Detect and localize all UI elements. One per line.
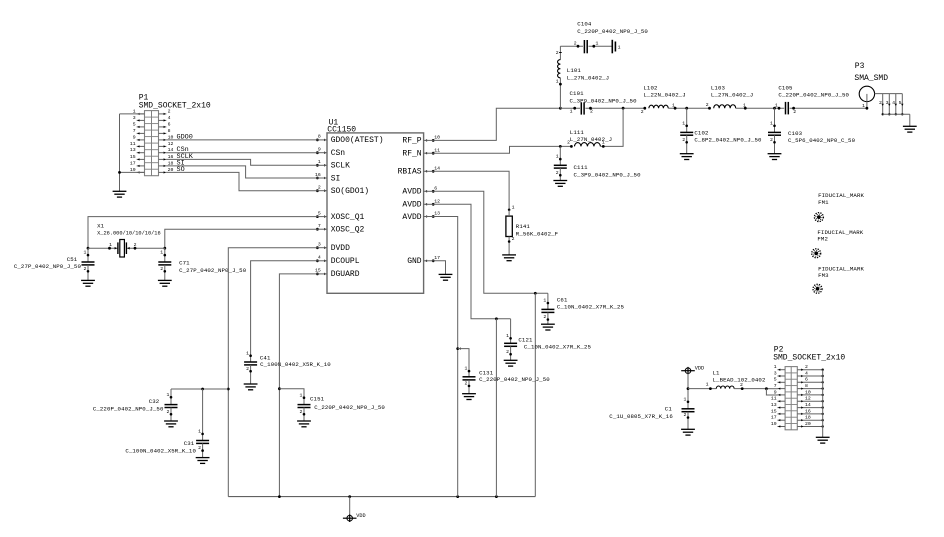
capacitor C102 label xyxy=(694,129,762,143)
fiducial FM1 xyxy=(814,213,823,222)
svg-text:SO: SO xyxy=(177,166,185,174)
wire L111 out xyxy=(600,108,623,148)
svg-text:SI: SI xyxy=(331,174,341,183)
wire AVDD12 drop xyxy=(495,319,497,497)
svg-text:6: 6 xyxy=(805,377,808,383)
capacitor C131 xyxy=(462,362,476,400)
node AVDD12 bus xyxy=(495,317,498,320)
svg-text:SO(GDO1): SO(GDO1) xyxy=(331,187,369,196)
svg-text:3: 3 xyxy=(133,115,136,121)
connector P1 label xyxy=(139,94,211,111)
svg-text:L_22N_0402_J: L_22N_0402_J xyxy=(643,92,685,99)
svg-text:R141: R141 xyxy=(516,223,531,230)
svg-text:C_27P_0402_NP0_J_50: C_27P_0402_NP0_J_50 xyxy=(179,267,247,274)
wire CSn xyxy=(166,146,317,154)
wire SI xyxy=(166,159,317,178)
svg-text:2: 2 xyxy=(246,366,249,372)
svg-text:4: 4 xyxy=(318,255,321,261)
wire XOSC_Q2 xyxy=(165,229,318,248)
antenna stub plates xyxy=(612,40,620,54)
svg-text:5: 5 xyxy=(774,377,777,383)
svg-text:2: 2 xyxy=(167,409,170,415)
svg-text:SCLK: SCLK xyxy=(331,162,350,171)
P1 pin numbers xyxy=(130,108,174,173)
ground below R141 xyxy=(502,255,516,261)
svg-text:L_27N_0402_J: L_27N_0402_J xyxy=(570,136,612,143)
wire crystal right xyxy=(126,242,164,249)
svg-text:9: 9 xyxy=(318,147,321,153)
svg-text:C_3P9_0402_NP0_J_50: C_3P9_0402_NP0_J_50 xyxy=(570,97,638,104)
svg-text:7: 7 xyxy=(133,128,136,134)
node XTAL right xyxy=(163,247,166,250)
svg-text:FM3: FM3 xyxy=(818,272,829,279)
capacitor C103 xyxy=(768,108,782,159)
wire L101 bottom xyxy=(556,78,562,108)
svg-text:16: 16 xyxy=(315,172,321,178)
svg-text:2: 2 xyxy=(543,314,546,320)
svg-text:L103: L103 xyxy=(711,84,726,91)
svg-text:2: 2 xyxy=(641,109,644,115)
wire RF_N xyxy=(433,146,571,153)
svg-text:SMD_SOCKET_2x10: SMD_SOCKET_2x10 xyxy=(773,353,845,362)
svg-text:18: 18 xyxy=(805,415,811,421)
svg-text:2: 2 xyxy=(506,349,509,355)
svg-text:2: 2 xyxy=(770,137,773,143)
svg-text:1: 1 xyxy=(84,250,87,256)
svg-text:1: 1 xyxy=(318,159,321,165)
svg-text:14: 14 xyxy=(805,402,811,408)
svg-text:C102: C102 xyxy=(694,129,709,136)
capacitor C71 label xyxy=(179,260,247,274)
wire GDO0 xyxy=(166,133,317,141)
svg-text:C_8P2_0402_NP0_J_50: C_8P2_0402_NP0_J_50 xyxy=(694,137,762,144)
capacitor C41 xyxy=(244,350,258,390)
svg-text:P3: P3 xyxy=(855,62,865,71)
svg-text:5: 5 xyxy=(318,210,321,216)
svg-text:SMA_SMD: SMA_SMD xyxy=(854,74,888,83)
wire to P3 xyxy=(790,107,867,115)
wire L1 in xyxy=(688,382,716,390)
inductor L1 label xyxy=(713,369,766,383)
wire C151 branch xyxy=(279,389,304,398)
inductor L102 xyxy=(649,105,668,108)
power VDD bottom xyxy=(343,514,357,522)
P3 ground pins xyxy=(879,94,903,116)
wire VDD stub xyxy=(349,497,351,516)
connector P1 xyxy=(137,111,167,176)
svg-text:13: 13 xyxy=(130,147,136,153)
svg-text:C_10N_0402_X7R_K_25: C_10N_0402_X7R_K_25 xyxy=(524,343,592,350)
svg-text:9: 9 xyxy=(133,134,136,140)
wire L103 out xyxy=(736,102,785,109)
svg-text:7: 7 xyxy=(318,223,321,229)
svg-text:2: 2 xyxy=(134,242,137,248)
svg-text:3: 3 xyxy=(318,242,321,248)
svg-text:L101: L101 xyxy=(567,67,582,74)
capacitor C41 label xyxy=(260,354,331,368)
fiducial FM2 label xyxy=(817,229,863,243)
svg-text:2: 2 xyxy=(84,266,87,272)
svg-text:2: 2 xyxy=(879,100,882,106)
inductor L103 label xyxy=(711,84,753,98)
capacitor C31 label xyxy=(125,440,196,454)
svg-text:VDD: VDD xyxy=(695,366,704,372)
svg-text:XOSC_Q2: XOSC_Q2 xyxy=(331,226,365,235)
svg-text:1: 1 xyxy=(300,392,303,398)
svg-text:2: 2 xyxy=(512,236,515,242)
svg-text:C_100N_0402_X5R_K_10: C_100N_0402_X5R_K_10 xyxy=(125,447,196,454)
wire C104 in xyxy=(560,40,583,47)
svg-text:2: 2 xyxy=(740,382,743,388)
U1 right pins xyxy=(398,135,441,267)
svg-text:C_220P_0402_NP0_J_50: C_220P_0402_NP0_J_50 xyxy=(93,406,164,413)
fiducial FM1 label xyxy=(818,192,864,206)
svg-text:C71: C71 xyxy=(179,260,190,267)
capacitor C51 label xyxy=(14,256,82,270)
svg-text:17: 17 xyxy=(771,415,777,421)
capacitor C103 label xyxy=(788,130,856,144)
svg-text:GDO0: GDO0 xyxy=(177,133,193,141)
wire AVDD12 xyxy=(433,204,510,318)
svg-text:VDD: VDD xyxy=(356,513,365,519)
capacitor C151 xyxy=(297,392,311,427)
capacitor C1 xyxy=(681,396,695,435)
node RF_P match xyxy=(559,107,562,110)
svg-text:10: 10 xyxy=(434,135,440,141)
svg-text:1: 1 xyxy=(543,298,546,304)
wire RF line mid xyxy=(585,107,644,115)
svg-text:RF_N: RF_N xyxy=(402,150,421,159)
capacitor C121 label xyxy=(518,336,591,350)
svg-text:DVDD: DVDD xyxy=(331,244,350,253)
svg-text:1: 1 xyxy=(618,45,621,51)
svg-text:1: 1 xyxy=(774,364,777,370)
svg-text:C_220P_0402_NP0_J_50: C_220P_0402_NP0_J_50 xyxy=(479,376,550,383)
svg-text:RBIAS: RBIAS xyxy=(398,168,422,177)
svg-text:1: 1 xyxy=(109,242,112,248)
wire VDD top drop xyxy=(687,374,690,402)
capacitor C111 xyxy=(553,146,567,186)
wire P2 ground bus xyxy=(822,370,824,438)
ground P3 xyxy=(903,126,917,132)
svg-text:RF_P: RF_P xyxy=(402,137,421,146)
wire AVDD6 drop xyxy=(534,293,536,496)
svg-text:12: 12 xyxy=(434,199,440,205)
svg-text:1: 1 xyxy=(570,108,573,114)
svg-text:GDO0(ATEST): GDO0(ATEST) xyxy=(331,136,384,145)
svg-text:C_10N_0402_X7R_K_25: C_10N_0402_X7R_K_25 xyxy=(557,304,625,311)
inductor L101 label xyxy=(567,67,609,81)
svg-text:C_220P_0402_NP0_J_50: C_220P_0402_NP0_J_50 xyxy=(314,404,385,411)
svg-text:3: 3 xyxy=(886,100,889,106)
ic U1 CC1150 box xyxy=(327,133,424,293)
svg-text:1: 1 xyxy=(775,102,778,108)
wire AVDD6 xyxy=(433,191,548,293)
svg-text:1: 1 xyxy=(556,78,559,84)
svg-text:L111: L111 xyxy=(570,129,585,136)
svg-text:C_100N_0402_X5R_K_10: C_100N_0402_X5R_K_10 xyxy=(260,361,331,368)
svg-text:8: 8 xyxy=(318,134,321,140)
capacitor C71 xyxy=(158,248,172,286)
svg-text:2: 2 xyxy=(556,170,559,176)
svg-text:1: 1 xyxy=(672,103,675,109)
svg-text:2: 2 xyxy=(300,409,303,415)
svg-text:2: 2 xyxy=(318,185,321,191)
svg-text:6: 6 xyxy=(434,186,437,192)
svg-text:C51: C51 xyxy=(67,256,78,263)
node AVDD6 bus xyxy=(534,292,537,295)
svg-text:20: 20 xyxy=(805,421,811,427)
svg-text:12: 12 xyxy=(168,141,174,147)
svg-text:1: 1 xyxy=(512,204,515,210)
net label VDD bottom xyxy=(356,513,365,519)
wire DCOUPL xyxy=(251,261,318,356)
node L102 in xyxy=(641,107,646,115)
svg-text:4: 4 xyxy=(168,115,171,121)
svg-text:L102: L102 xyxy=(643,84,658,91)
fiducial FM2 xyxy=(812,249,821,258)
svg-text:CSn: CSn xyxy=(331,149,346,158)
node XTAL left xyxy=(87,247,90,250)
svg-text:2: 2 xyxy=(574,40,577,46)
svg-text:15: 15 xyxy=(130,154,136,160)
inductor L102 label xyxy=(643,84,685,98)
svg-text:C151: C151 xyxy=(310,396,325,403)
svg-text:1: 1 xyxy=(198,429,201,435)
wire L102 out xyxy=(668,103,709,110)
capacitor C61 label xyxy=(557,296,625,310)
node C111 tap xyxy=(559,145,562,148)
svg-text:C1: C1 xyxy=(665,406,673,413)
svg-text:4: 4 xyxy=(805,370,808,376)
net label VDD top xyxy=(695,366,704,372)
svg-text:15: 15 xyxy=(771,408,777,414)
P2 pin numbers xyxy=(771,364,811,427)
svg-text:4: 4 xyxy=(892,100,895,106)
svg-text:1: 1 xyxy=(770,120,773,126)
svg-text:C31: C31 xyxy=(184,440,195,447)
svg-text:17: 17 xyxy=(434,255,440,261)
svg-text:2: 2 xyxy=(556,50,559,56)
wire L1 out xyxy=(734,382,777,390)
capacitor C121 xyxy=(504,319,518,366)
svg-text:11: 11 xyxy=(130,141,136,147)
svg-text:1: 1 xyxy=(506,333,509,339)
capacitor C32 label xyxy=(93,398,164,413)
inductor L111 label xyxy=(570,129,612,143)
wire C32 branch xyxy=(171,388,228,390)
capacitor C111 label xyxy=(574,164,642,178)
svg-text:L1: L1 xyxy=(713,369,721,376)
svg-text:L_27N_0402_J: L_27N_0402_J xyxy=(711,92,753,99)
svg-text:C_220P_0402_NP0_J_50: C_220P_0402_NP0_J_50 xyxy=(778,92,849,99)
svg-text:GND: GND xyxy=(407,257,422,266)
ground below P1 xyxy=(113,191,127,197)
wire DGUARD xyxy=(279,274,317,497)
fiducial FM3 xyxy=(813,284,822,293)
svg-text:X_26.000/10/10/10/16: X_26.000/10/10/10/16 xyxy=(97,231,161,237)
svg-text:C32: C32 xyxy=(149,398,160,405)
svg-text:3: 3 xyxy=(774,370,777,376)
wire AVDD13 xyxy=(433,217,458,497)
svg-text:1: 1 xyxy=(684,396,687,402)
wire P2 pin9 feed xyxy=(766,389,777,395)
U1 left pins xyxy=(315,134,383,280)
svg-text:8: 8 xyxy=(168,128,171,134)
svg-text:2: 2 xyxy=(805,364,808,370)
svg-text:9: 9 xyxy=(774,389,777,395)
svg-text:1: 1 xyxy=(246,350,249,356)
svg-text:2: 2 xyxy=(706,102,709,108)
svg-text:C_1U_0805_X7R_K_16: C_1U_0805_X7R_K_16 xyxy=(609,413,673,420)
node L111 in xyxy=(567,140,573,148)
svg-text:16: 16 xyxy=(805,408,811,414)
svg-text:2: 2 xyxy=(684,412,687,418)
node bus VDD xyxy=(348,495,351,498)
inductor L1 xyxy=(716,386,734,389)
svg-text:C121: C121 xyxy=(518,336,533,343)
svg-text:AVDD: AVDD xyxy=(402,201,421,210)
svg-text:C111: C111 xyxy=(574,164,589,171)
svg-text:2: 2 xyxy=(682,137,685,143)
svg-text:FM2: FM2 xyxy=(817,235,828,242)
inductor L101 xyxy=(558,60,561,78)
wire P1 ground bus xyxy=(118,114,144,191)
wire crystal left xyxy=(88,242,118,249)
svg-text:8: 8 xyxy=(805,383,808,389)
svg-text:1: 1 xyxy=(160,250,163,256)
connector P2 xyxy=(778,367,824,430)
svg-text:C105: C105 xyxy=(778,84,793,91)
capacitor C101 xyxy=(581,102,584,114)
node bus DGUARD xyxy=(278,495,281,498)
svg-text:1: 1 xyxy=(862,103,865,109)
power VDD top xyxy=(681,367,695,375)
node bus AVDD12 xyxy=(495,495,498,498)
capacitor C105 label xyxy=(778,84,849,98)
svg-text:12: 12 xyxy=(805,396,811,402)
svg-text:C_5P6_0402_NP0_C_50: C_5P6_0402_NP0_C_50 xyxy=(788,137,856,144)
capacitor C51 xyxy=(81,248,95,286)
wire L101 top xyxy=(556,46,562,59)
wire P3 shield xyxy=(883,114,910,126)
svg-text:XOSC_Q1: XOSC_Q1 xyxy=(331,213,365,222)
svg-text:14: 14 xyxy=(434,166,440,172)
resistor R141 xyxy=(506,204,515,255)
capacitor C131 label xyxy=(479,369,550,383)
svg-text:X1: X1 xyxy=(97,222,105,229)
svg-text:5: 5 xyxy=(133,121,136,127)
svg-text:19: 19 xyxy=(771,421,777,427)
wire C104 out xyxy=(589,40,612,47)
svg-text:C_27P_0402_NP0_J_50: C_27P_0402_NP0_J_50 xyxy=(14,263,82,270)
wire RBIAS xyxy=(433,171,509,210)
svg-text:17: 17 xyxy=(130,160,136,166)
svg-text:C_220P_0402_NP0_J_50: C_220P_0402_NP0_J_50 xyxy=(577,28,648,35)
svg-text:C103: C103 xyxy=(788,130,803,137)
svg-text:C_3P9_0402_NP0_J_50: C_3P9_0402_NP0_J_50 xyxy=(574,172,642,179)
capacitor C1 label xyxy=(609,406,673,420)
capacitor C102 xyxy=(680,108,694,159)
svg-text:DGUARD: DGUARD xyxy=(331,270,360,279)
capacitor C105 xyxy=(786,102,789,115)
connector P3 label xyxy=(854,62,888,83)
capacitor C101 label xyxy=(570,90,638,104)
svg-text:2: 2 xyxy=(168,108,171,114)
svg-text:6: 6 xyxy=(168,121,171,127)
svg-text:10: 10 xyxy=(805,389,811,395)
svg-text:2: 2 xyxy=(160,266,163,272)
wire XOSC_Q1 xyxy=(88,217,317,249)
svg-text:FM1: FM1 xyxy=(818,199,829,206)
svg-text:2: 2 xyxy=(465,381,468,387)
svg-text:2: 2 xyxy=(590,109,593,115)
ground P2 xyxy=(816,437,830,443)
capacitor C104 xyxy=(584,40,587,53)
svg-text:1: 1 xyxy=(556,154,559,160)
wire VDD bus xyxy=(228,496,535,498)
wire RF_P xyxy=(433,108,560,140)
connector P3 xyxy=(859,86,902,109)
svg-text:1: 1 xyxy=(167,392,170,398)
capacitor C31 xyxy=(196,389,210,463)
svg-text:L_27N_0402_J: L_27N_0402_J xyxy=(567,74,609,81)
svg-text:7: 7 xyxy=(774,383,777,389)
svg-text:11: 11 xyxy=(434,147,440,153)
capacitor C61 xyxy=(541,293,555,330)
node L103 in xyxy=(706,102,711,109)
ground U1 GND xyxy=(439,274,453,280)
svg-text:2: 2 xyxy=(793,109,796,115)
svg-text:AVDD: AVDD xyxy=(402,188,421,197)
connector P2 label xyxy=(773,345,845,362)
svg-text:1: 1 xyxy=(682,120,685,126)
svg-text:C61: C61 xyxy=(557,296,568,303)
node AVDD13 branch xyxy=(456,347,460,350)
svg-text:1: 1 xyxy=(706,382,709,388)
svg-text:1: 1 xyxy=(465,366,468,372)
svg-text:AVDD: AVDD xyxy=(402,213,421,222)
capacitor C32 xyxy=(164,389,178,427)
crystal X1 xyxy=(118,240,127,258)
capacitor C151 label xyxy=(310,396,385,411)
wire DVDD xyxy=(228,248,317,497)
node bus AVDD13 xyxy=(456,495,459,498)
svg-text:13: 13 xyxy=(771,402,777,408)
svg-text:SMD_SOCKET_2x10: SMD_SOCKET_2x10 xyxy=(139,101,211,110)
svg-text:5: 5 xyxy=(899,100,902,106)
node DVDD branch xyxy=(227,388,230,391)
wire SO xyxy=(166,166,317,191)
svg-text:C101: C101 xyxy=(570,90,585,97)
svg-text:15: 15 xyxy=(315,268,321,274)
resistor R141 label xyxy=(516,223,559,237)
wire RF line C101 xyxy=(560,107,580,115)
svg-text:DCOUPL: DCOUPL xyxy=(331,257,360,266)
svg-text:1: 1 xyxy=(596,40,599,46)
fiducial FM3 label xyxy=(818,265,864,279)
inductor L103 xyxy=(714,105,736,108)
node VDD P2 xyxy=(765,387,768,390)
wire GND17 xyxy=(433,261,445,275)
inductor L111 xyxy=(575,143,601,147)
svg-text:C104: C104 xyxy=(577,21,592,28)
capacitor C104 label xyxy=(577,21,648,35)
svg-text:13: 13 xyxy=(434,211,440,217)
svg-text:1: 1 xyxy=(602,140,605,146)
svg-text:1: 1 xyxy=(743,103,746,109)
svg-text:R_56K_0402_F: R_56K_0402_F xyxy=(516,230,559,237)
